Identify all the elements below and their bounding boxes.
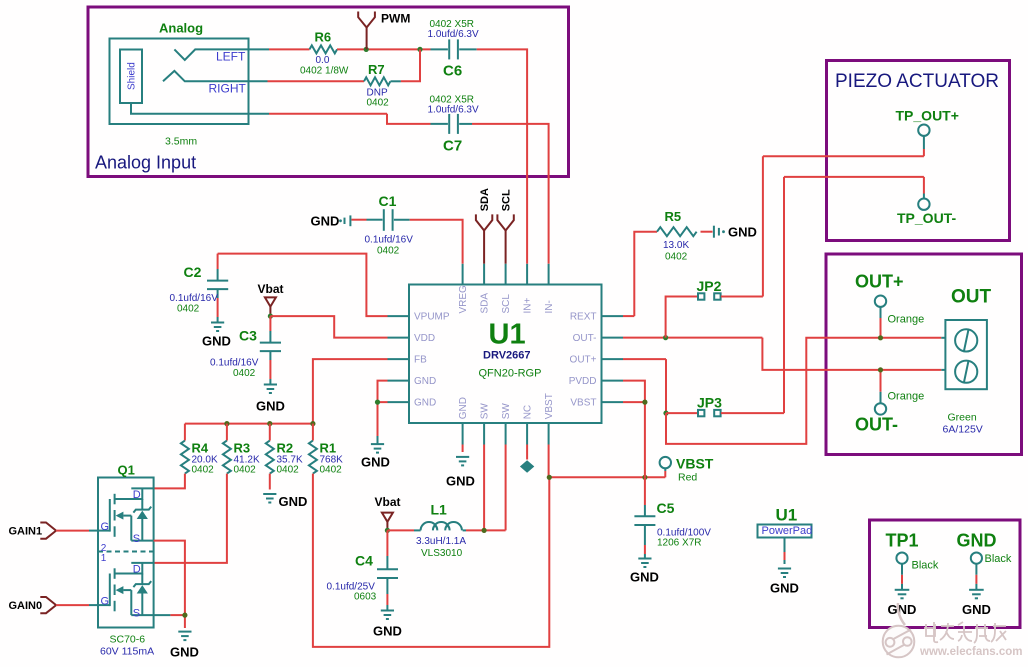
- testpoint OUT-: [855, 370, 924, 435]
- svg-text:1: 1: [101, 553, 107, 564]
- svg-text:VBST: VBST: [676, 455, 714, 471]
- node Vbat2 junction: [385, 528, 390, 533]
- svg-text:Analog Input: Analog Input: [95, 153, 196, 173]
- U1 pin VDD: [388, 333, 436, 344]
- watermark chinese text: [924, 622, 1006, 643]
- OUT connector box labels: [943, 287, 992, 436]
- node GND pins junction: [375, 400, 380, 405]
- svg-text:C3: C3: [239, 328, 257, 344]
- node OUT- junction: [878, 367, 883, 372]
- svg-text:GND: GND: [630, 570, 659, 585]
- svg-text:DRV2667: DRV2667: [483, 350, 531, 362]
- wire R6 to C6: [337, 48, 431, 50]
- svg-text:0402: 0402: [665, 252, 688, 263]
- svg-text:QFN20-RGP: QFN20-RGP: [479, 368, 542, 380]
- svg-text:IN+: IN+: [523, 298, 534, 314]
- transistor Q1 upper FET: [98, 488, 154, 545]
- node R7 junction: [417, 47, 422, 52]
- wire PVDD to VBST net: [623, 381, 645, 478]
- svg-text:OUT: OUT: [951, 287, 992, 308]
- svg-text:OUT+: OUT+: [855, 272, 904, 292]
- svg-text:TP_OUT+: TP_OUT+: [896, 107, 959, 123]
- capacitor C4: [327, 530, 399, 610]
- connector GAIN1: [9, 523, 99, 539]
- no-connect NC diamond: [520, 445, 534, 473]
- OUT connector box: [826, 254, 1022, 455]
- svg-text:TP1: TP1: [886, 530, 919, 550]
- wire R3 to Q1 lower drain: [154, 474, 227, 563]
- svg-text:C2: C2: [184, 264, 202, 280]
- svg-text:S: S: [133, 608, 140, 620]
- svg-text:SC70-6: SC70-6: [110, 634, 146, 646]
- U1 pin NC: [523, 405, 534, 445]
- svg-text:VPUMP: VPUMP: [414, 312, 450, 323]
- svg-text:SW: SW: [501, 403, 512, 420]
- svg-text:0402: 0402: [233, 368, 256, 379]
- svg-text:VBST: VBST: [570, 398, 596, 409]
- svg-text:L1: L1: [431, 502, 448, 518]
- svg-text:VDD: VDD: [414, 333, 435, 344]
- U1 pin PVDD: [569, 376, 623, 387]
- svg-text:0402 1/8W: 0402 1/8W: [300, 66, 349, 77]
- svg-text:Q1: Q1: [118, 463, 135, 478]
- ground C2: [202, 323, 231, 349]
- U1 pin VPUMP: [388, 312, 450, 323]
- svg-text:C1: C1: [379, 193, 397, 209]
- svg-text:Red: Red: [678, 472, 697, 484]
- svg-text:0.1ufd/16V: 0.1ufd/16V: [210, 358, 259, 369]
- svg-text:TP_OUT-: TP_OUT-: [897, 210, 956, 226]
- svg-text:SW: SW: [480, 403, 491, 420]
- wire Vbat to VDD: [270, 316, 387, 338]
- PIEZO ACTUATOR box: [827, 61, 1010, 241]
- node bottom rail junction: [547, 475, 552, 480]
- PIEZO ACTUATOR box title: [835, 71, 999, 92]
- svg-text:0603: 0603: [354, 592, 377, 603]
- U1 pin VREG: [458, 264, 469, 314]
- svg-text:GND: GND: [458, 397, 469, 419]
- svg-text:SCL: SCL: [501, 189, 513, 211]
- resistor R6: [300, 30, 349, 77]
- U1 pin OUT-: [573, 333, 623, 344]
- svg-text:R7: R7: [368, 62, 385, 77]
- wire REXT to R5: [623, 232, 657, 316]
- wire C1 to VREG: [410, 220, 463, 264]
- svg-text:OUT-: OUT-: [573, 333, 597, 344]
- svg-text:GND: GND: [361, 455, 390, 470]
- U1 PowerPad: [758, 506, 813, 565]
- svg-text:Orange: Orange: [888, 313, 925, 325]
- svg-text:OUT+: OUT+: [570, 355, 597, 366]
- svg-text:GND: GND: [414, 398, 436, 409]
- capacitor C6: [428, 19, 479, 80]
- jumper JP2: [666, 278, 763, 338]
- svg-text:0402: 0402: [277, 465, 300, 476]
- jumper JP3: [666, 395, 784, 417]
- U1 pin FB: [388, 355, 428, 366]
- svg-text:Vbat: Vbat: [258, 282, 284, 296]
- testpoint VBST: [660, 455, 714, 483]
- svg-text:C4: C4: [355, 553, 373, 569]
- wire RIGHT jack to R7: [249, 80, 365, 82]
- svg-text:R3: R3: [234, 441, 251, 456]
- svg-text:PWM: PWM: [381, 12, 410, 26]
- svg-text:6A/125V: 6A/125V: [943, 423, 983, 435]
- node OUT+ junction: [878, 335, 883, 340]
- svg-text:FB: FB: [414, 355, 427, 366]
- connector PWM: [358, 12, 410, 50]
- svg-text:Shield: Shield: [127, 62, 138, 90]
- wire C6 to IN+: [477, 49, 527, 263]
- svg-text:G: G: [101, 596, 110, 608]
- svg-text:LEFT: LEFT: [216, 50, 246, 64]
- resistor rail node A: [185, 421, 316, 426]
- testpoint OUT+: [855, 272, 924, 338]
- wire LEFT jack to R6: [249, 48, 310, 50]
- U1 pin VBST bottom: [544, 393, 555, 444]
- svg-text:GND: GND: [770, 581, 799, 596]
- svg-text:GND: GND: [957, 530, 997, 550]
- wire JP2 to TP_OUT+: [763, 156, 924, 296]
- svg-text:GND: GND: [202, 334, 231, 349]
- testpoint TP1: [886, 530, 939, 617]
- ground R2: [263, 474, 307, 509]
- svg-text:0402: 0402: [177, 304, 200, 315]
- connector SDA: [476, 188, 492, 264]
- svg-text:GND: GND: [311, 214, 340, 229]
- svg-text:Black: Black: [912, 559, 939, 571]
- svg-text:R1: R1: [320, 441, 337, 456]
- transistor Q1 lower FET: [98, 563, 154, 620]
- svg-text:R2: R2: [277, 441, 294, 456]
- svg-text:GND: GND: [373, 624, 402, 639]
- svg-text:JP2: JP2: [697, 278, 722, 294]
- ground U1 bottom GND: [446, 445, 475, 489]
- ground PowerPad: [770, 569, 799, 596]
- TP1 GND box: [870, 520, 1021, 628]
- svg-text:U1: U1: [776, 506, 798, 525]
- node PVDD VBST junction: [642, 400, 647, 405]
- U1 pin SDA: [480, 264, 491, 314]
- node Vbat junction: [268, 314, 273, 319]
- svg-text:VREG: VREG: [458, 285, 469, 314]
- capacitor C5: [634, 477, 711, 558]
- svg-text:0402: 0402: [192, 465, 215, 476]
- svg-text:GND: GND: [446, 474, 475, 489]
- U1 pin VBST right: [570, 398, 623, 409]
- svg-text:3.5mm: 3.5mm: [165, 136, 197, 148]
- svg-text:1206 X7R: 1206 X7R: [657, 537, 701, 548]
- svg-text:C5: C5: [657, 500, 675, 516]
- wire OUT+ row: [623, 359, 666, 413]
- wire OUT+ loop to OUT box: [666, 338, 945, 444]
- svg-text:0.1ufd/16V: 0.1ufd/16V: [365, 235, 414, 246]
- svg-text:REXT: REXT: [570, 312, 597, 323]
- node Q1 source junction: [182, 613, 187, 618]
- svg-text:SCL: SCL: [501, 294, 512, 314]
- svg-text:D: D: [133, 489, 141, 501]
- wire R4 to Q1 upper drain: [154, 474, 185, 489]
- wire Q1 lower source: [154, 615, 185, 628]
- capacitor C3: [210, 316, 281, 384]
- svg-text:R4: R4: [192, 441, 209, 456]
- svg-text:Green: Green: [948, 412, 977, 424]
- node SW junction: [482, 528, 487, 533]
- svg-text:0.0: 0.0: [316, 55, 330, 66]
- capacitor C7: [428, 95, 479, 155]
- node JP2 junction: [663, 335, 668, 340]
- power Vbat: [258, 282, 284, 316]
- wire R7 up to LEFT net: [401, 49, 420, 81]
- ground C5: [630, 559, 659, 585]
- svg-text:Orange: Orange: [888, 391, 925, 403]
- resistor R2: [266, 424, 303, 476]
- wire VBST bottom pin: [549, 445, 666, 478]
- svg-text:GAIN0: GAIN0: [9, 600, 43, 612]
- testpoint GND black: [957, 530, 1012, 617]
- svg-text:GND: GND: [279, 494, 308, 509]
- svg-text:R6: R6: [315, 30, 332, 45]
- resistor R4: [181, 424, 218, 476]
- capacitor C2: [170, 254, 388, 322]
- U1 pin SCL: [501, 264, 512, 314]
- svg-text:1.0ufd/6.3V: 1.0ufd/6.3V: [428, 29, 479, 40]
- wire SW pins to L1: [466, 445, 506, 531]
- U1 pin IN+: [523, 264, 534, 314]
- svg-text:0402: 0402: [320, 465, 343, 476]
- U1 pin GND left1: [388, 376, 437, 387]
- wire OUT- row: [623, 338, 945, 370]
- svg-text:OUT-: OUT-: [855, 415, 898, 435]
- svg-text:13.0K: 13.0K: [663, 240, 689, 251]
- testpoint TP_OUT+: [896, 107, 959, 156]
- svg-text:www.elecfans.com: www.elecfans.com: [919, 646, 1022, 658]
- svg-text:GAIN1: GAIN1: [9, 526, 43, 538]
- wire JP3 to TP_OUT-: [784, 177, 924, 413]
- ground tie R5 GND: [714, 224, 757, 239]
- connector GAIN0: [9, 597, 99, 613]
- node PWM junction: [364, 47, 369, 52]
- resistor R3: [223, 424, 260, 476]
- svg-text:VBST: VBST: [544, 393, 555, 419]
- watermark url text: [919, 646, 1022, 658]
- wire Q1 upper source down: [154, 541, 185, 616]
- svg-text:C7: C7: [443, 138, 462, 155]
- resistor R1: [309, 424, 343, 476]
- wire U1 GND pins: [378, 381, 388, 444]
- svg-text:S: S: [133, 533, 140, 545]
- svg-text:R5: R5: [665, 209, 682, 224]
- U1 pin REXT: [570, 312, 623, 323]
- inductor L1: [387, 502, 466, 560]
- U1 pin OUT+: [570, 355, 623, 366]
- svg-text:JP3: JP3: [697, 395, 722, 411]
- capacitor C1: [311, 193, 414, 257]
- svg-text:G: G: [101, 521, 110, 533]
- wire C7 to IN-: [472, 124, 549, 264]
- svg-text:GND: GND: [256, 399, 285, 414]
- svg-text:VLS3010: VLS3010: [421, 548, 463, 559]
- power Vbat 2: [375, 495, 401, 530]
- svg-text:0.1ufd/16V: 0.1ufd/16V: [170, 293, 219, 304]
- svg-text:Analog: Analog: [159, 21, 203, 36]
- svg-text:C6: C6: [443, 63, 462, 80]
- ground C3: [256, 385, 285, 414]
- op-amp U1 DRV2667 body: [409, 285, 602, 424]
- svg-text:GND: GND: [414, 376, 436, 387]
- wire shield to C7: [269, 114, 431, 124]
- svg-text:60V 115mA: 60V 115mA: [100, 646, 154, 658]
- U1 pin GND bottom: [458, 397, 469, 444]
- svg-text:0402: 0402: [367, 98, 390, 109]
- transistor Q1 box: [98, 463, 154, 658]
- watermark elecfans logo: [883, 603, 915, 657]
- ground Q1: [170, 632, 199, 660]
- node C5 junction: [642, 475, 647, 480]
- U1 pin SW2: [501, 403, 512, 445]
- svg-text:3.3uH/1.1A: 3.3uH/1.1A: [416, 536, 466, 547]
- svg-text:SDA: SDA: [480, 293, 491, 314]
- resistor R5: [657, 209, 713, 263]
- svg-text:PVDD: PVDD: [569, 376, 597, 387]
- Analog Input box: [88, 7, 569, 177]
- svg-text:GND: GND: [962, 602, 991, 617]
- svg-text:PowerPad: PowerPad: [762, 525, 813, 537]
- wire FB: [313, 359, 388, 424]
- svg-text:PIEZO ACTUATOR: PIEZO ACTUATOR: [835, 71, 999, 92]
- svg-text:U1: U1: [489, 319, 526, 351]
- svg-text:IN-: IN-: [544, 300, 555, 313]
- U1 pin IN-: [544, 264, 555, 314]
- terminal block OUT: [945, 320, 987, 389]
- svg-text:1.0ufd/6.3V: 1.0ufd/6.3V: [428, 104, 479, 115]
- svg-text:0402: 0402: [234, 465, 257, 476]
- svg-text:GND: GND: [888, 602, 917, 617]
- svg-text:0402: 0402: [377, 246, 400, 257]
- svg-text:NC: NC: [523, 405, 534, 419]
- svg-text:SDA: SDA: [479, 188, 491, 211]
- wire R1 to bottom rail to VBST: [313, 474, 549, 647]
- connector SCL: [497, 189, 513, 264]
- node JP3 junction: [663, 411, 668, 416]
- svg-text:GND: GND: [170, 645, 199, 660]
- testpoint TP_OUT-: [897, 177, 956, 226]
- resistor R7 DNP: [364, 62, 401, 109]
- ground U1 left GND: [361, 444, 390, 469]
- svg-text:Vbat: Vbat: [375, 495, 401, 509]
- svg-text:RIGHT: RIGHT: [209, 82, 247, 96]
- svg-text:GND: GND: [728, 224, 757, 239]
- ground C4: [373, 611, 402, 639]
- svg-text:Black: Black: [985, 553, 1012, 565]
- svg-text:D: D: [133, 563, 141, 575]
- U1 pin GND left2: [388, 398, 437, 409]
- U1 pin SW1: [480, 403, 491, 445]
- audio jack J1 3.5mm: [110, 21, 270, 148]
